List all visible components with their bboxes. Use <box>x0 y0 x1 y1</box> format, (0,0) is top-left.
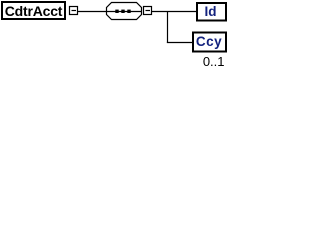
sequence compositor <box>107 3 142 20</box>
label CdtrAcct <box>1 1 66 20</box>
collapse toggle 2 <box>144 7 152 15</box>
element box Ccy <box>193 33 226 52</box>
wire from sequence to Id <box>152 11 197 13</box>
label Id <box>195 2 226 21</box>
wire branch vertical <box>167 12 169 44</box>
element box Id <box>197 3 226 21</box>
label Ccy <box>192 31 227 52</box>
collapse toggle 1 <box>70 7 78 15</box>
cardinality label 0..1 <box>186 55 225 67</box>
wire branch to Ccy <box>167 42 193 44</box>
element box CdtrAcct <box>2 2 65 19</box>
wire from CdtrAcct to sequence <box>78 11 107 13</box>
